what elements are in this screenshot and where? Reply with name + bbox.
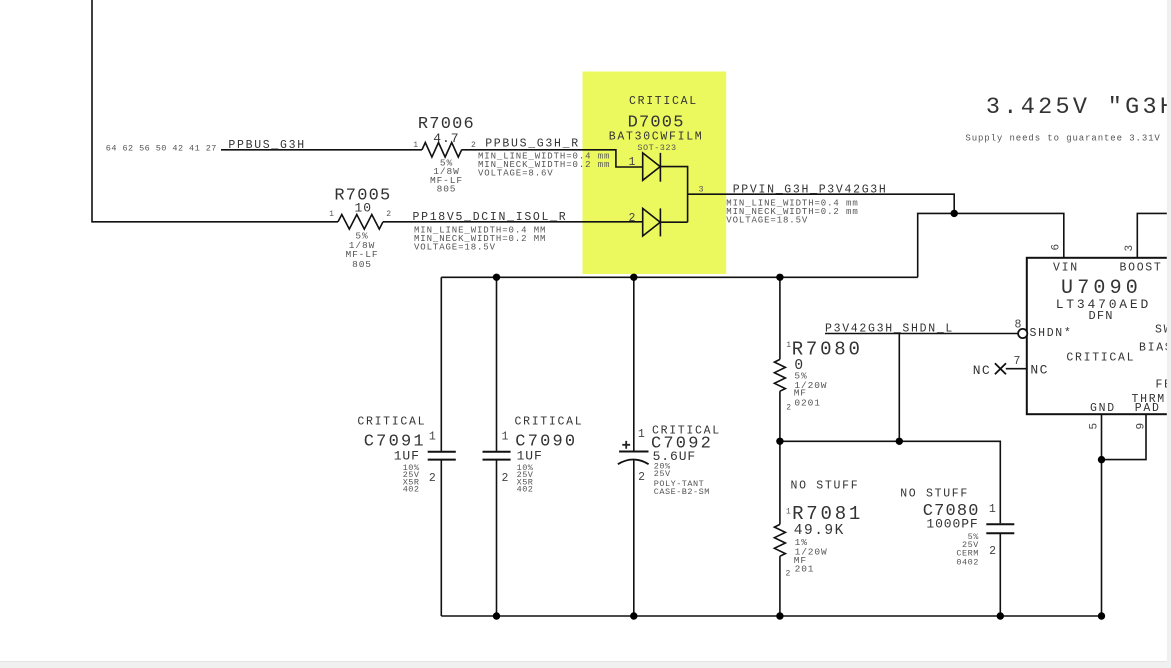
svg-text:8: 8: [1015, 318, 1022, 331]
svg-text:SOT-323: SOT-323: [637, 143, 676, 153]
svg-text:2: 2: [786, 404, 791, 413]
svg-text:1UF: 1UF: [517, 449, 543, 464]
svg-text:1: 1: [413, 141, 418, 150]
svg-text:3: 3: [698, 185, 703, 195]
svg-text:2: 2: [471, 141, 476, 150]
svg-text:CRITICAL: CRITICAL: [1066, 352, 1135, 365]
svg-text:64 62 56 50 42 41 27: 64 62 56 50 42 41 27: [106, 143, 217, 153]
svg-text:7: 7: [1014, 355, 1021, 368]
svg-text:PPVIN_G3H_P3V42G3H: PPVIN_G3H_P3V42G3H: [733, 183, 888, 196]
svg-text:R7080: R7080: [792, 338, 863, 360]
svg-text:25V: 25V: [654, 469, 671, 479]
svg-text:VOLTAGE=18.5V: VOLTAGE=18.5V: [726, 215, 808, 225]
svg-text:6: 6: [1050, 244, 1062, 251]
svg-text:GND: GND: [1090, 402, 1116, 415]
svg-text:1: 1: [786, 341, 791, 350]
svg-text:BOOST: BOOST: [1120, 261, 1163, 274]
svg-text:2: 2: [629, 212, 636, 225]
svg-text:VOLTAGE=18.5V: VOLTAGE=18.5V: [414, 242, 496, 252]
svg-text:1: 1: [786, 508, 791, 517]
svg-text:3: 3: [1124, 245, 1136, 252]
svg-text:402: 402: [517, 484, 534, 494]
svg-text:5: 5: [1089, 423, 1101, 430]
svg-text:402: 402: [403, 484, 420, 494]
svg-text:SHDN*: SHDN*: [1030, 327, 1073, 340]
svg-text:CASE-B2-SM: CASE-B2-SM: [654, 487, 710, 497]
svg-text:VOLTAGE=8.6V: VOLTAGE=8.6V: [478, 168, 554, 178]
svg-text:1: 1: [429, 431, 436, 444]
svg-text:0402: 0402: [956, 557, 978, 567]
svg-text:PAD: PAD: [1135, 402, 1161, 415]
svg-text:NC: NC: [1030, 363, 1048, 378]
svg-text:NO STUFF: NO STUFF: [791, 480, 860, 493]
svg-text:VIN: VIN: [1053, 261, 1079, 274]
svg-text:P3V42G3H_SHDN_L: P3V42G3H_SHDN_L: [825, 322, 954, 335]
svg-text:1000PF: 1000PF: [926, 517, 978, 532]
svg-text:1: 1: [502, 431, 509, 444]
svg-text:1: 1: [989, 503, 996, 516]
svg-text:1UF: 1UF: [394, 449, 420, 464]
svg-text:NO STUFF: NO STUFF: [900, 487, 969, 500]
svg-text:Supply needs to guarantee 3.31: Supply needs to guarantee 3.31V: [965, 134, 1160, 144]
svg-text:NC: NC: [973, 363, 991, 378]
svg-text:CRITICAL: CRITICAL: [357, 415, 426, 428]
svg-text:3.425V "G3H": 3.425V "G3H": [986, 94, 1171, 121]
svg-text:10: 10: [355, 201, 372, 216]
svg-text:2: 2: [502, 472, 509, 485]
svg-text:2: 2: [429, 472, 436, 485]
svg-text:2: 2: [786, 569, 791, 578]
svg-text:BIAS: BIAS: [1139, 342, 1171, 355]
svg-text:CRITICAL: CRITICAL: [629, 95, 698, 108]
svg-text:805: 805: [352, 259, 372, 270]
svg-text:4.7: 4.7: [433, 131, 459, 146]
svg-text:1: 1: [629, 156, 636, 169]
svg-text:BAT30CWFILM: BAT30CWFILM: [609, 130, 704, 143]
svg-text:201: 201: [795, 563, 815, 574]
svg-text:2: 2: [989, 545, 996, 558]
svg-text:R7081: R7081: [792, 503, 863, 525]
svg-text:DFN: DFN: [1089, 309, 1114, 323]
svg-text:PPBUS_G3H: PPBUS_G3H: [228, 139, 305, 152]
svg-text:2: 2: [386, 210, 391, 219]
svg-text:1: 1: [329, 210, 334, 219]
svg-text:1: 1: [638, 428, 645, 441]
svg-text:805: 805: [437, 183, 457, 194]
svg-text:PP18V5_DCIN_ISOL_R: PP18V5_DCIN_ISOL_R: [413, 211, 568, 224]
svg-text:9: 9: [1136, 423, 1148, 430]
svg-text:0201: 0201: [794, 398, 820, 409]
svg-text:PPBUS_G3H_R: PPBUS_G3H_R: [485, 137, 580, 150]
svg-text:CRITICAL: CRITICAL: [515, 415, 584, 428]
svg-text:2: 2: [638, 471, 645, 484]
